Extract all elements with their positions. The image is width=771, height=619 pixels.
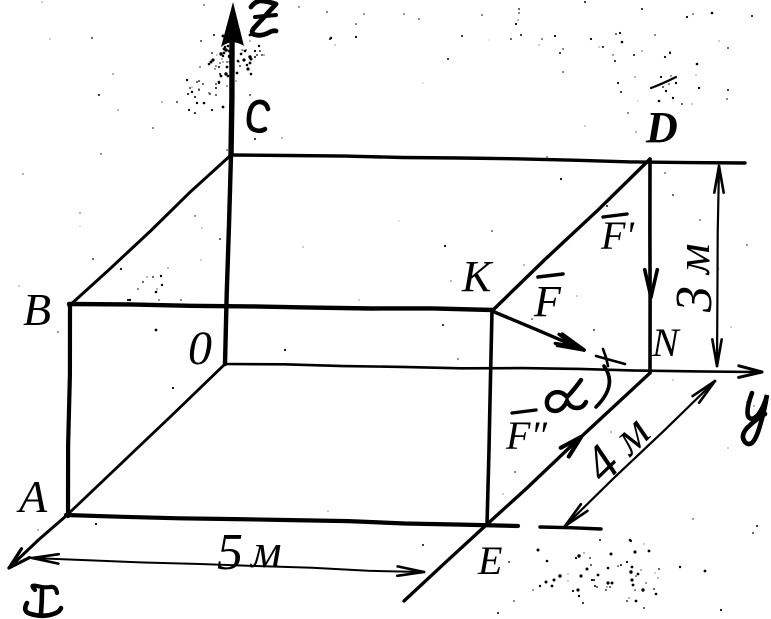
dashed extension of F — [596, 356, 625, 364]
svg-text:F': F' — [600, 213, 635, 258]
edge AE — [66, 515, 518, 526]
label y-axis — [743, 393, 767, 444]
svg-text:A: A — [16, 471, 48, 522]
force F-double-prime arrowhead — [561, 437, 581, 448]
edge KE — [487, 311, 492, 525]
svg-text:N: N — [651, 320, 681, 365]
svg-text:E: E — [477, 538, 502, 583]
svg-text:B: B — [23, 284, 51, 335]
force F vector — [492, 311, 584, 350]
dimension 5m line — [32, 558, 424, 572]
edge AO — [66, 364, 225, 516]
svg-text:3: 3 — [666, 286, 723, 313]
svg-text:K: K — [461, 252, 494, 301]
label C — [249, 102, 268, 131]
svg-text:F″: F″ — [505, 413, 548, 458]
svg-text:м: м — [667, 243, 720, 276]
edge BC — [69, 155, 231, 306]
svg-text:5: 5 — [217, 524, 243, 581]
svg-text:м: м — [249, 525, 282, 578]
z-axis — [231, 40, 232, 155]
edge BK — [69, 304, 493, 310]
y-axis — [225, 364, 757, 372]
label 3m — [666, 243, 723, 313]
edge AE extension segment — [540, 527, 601, 529]
x-axis — [12, 516, 66, 565]
edge CD extended — [231, 155, 745, 163]
label 4m — [573, 404, 663, 493]
edge CO — [225, 155, 231, 364]
svg-text:D: D — [645, 103, 678, 152]
svg-text:0: 0 — [188, 322, 212, 375]
dimension 3m line — [717, 167, 719, 366]
edge DN — [648, 159, 652, 373]
label z-axis — [251, 1, 276, 35]
label x-axis — [32, 586, 57, 594]
edge EN extended — [404, 373, 650, 601]
dimension 4m line — [565, 381, 715, 526]
svg-text:F: F — [533, 277, 562, 326]
edge AB — [68, 305, 70, 516]
angle alpha arc — [596, 366, 609, 407]
force F-prime arrowhead — [651, 270, 657, 297]
label alpha — [547, 380, 586, 411]
edge KD — [492, 159, 650, 311]
